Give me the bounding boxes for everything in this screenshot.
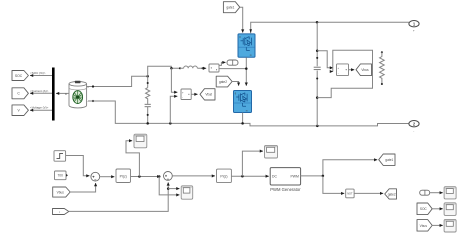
wire mosfet1 source to mid node (245, 57, 247, 85)
node Vbus minus tap (316, 96, 319, 99)
node battery plus junction (146, 75, 149, 78)
svg-text:<SOC (%)>: <SOC (%)> (30, 71, 46, 75)
node Vbus plus tap (316, 49, 319, 52)
wire Vbat output (191, 93, 197, 95)
bus selector bar (52, 68, 55, 121)
node PI1 output junction (138, 175, 141, 178)
node rail mosfet2 junction (241, 122, 244, 125)
constant block 700 (55, 171, 69, 180)
svg-text:PI(z): PI(z) (120, 175, 127, 179)
wire NOT to gate2 goto (354, 192, 383, 194)
wire bus to SOC with label <SOC (%)> (30, 71, 52, 76)
scope6 (444, 219, 456, 232)
wire Vbus plus routing (317, 51, 333, 68)
svg-text:<Current (A)>: <Current (A)> (30, 89, 49, 93)
current measurement block (209, 64, 219, 72)
svg-text:700: 700 (58, 174, 64, 178)
node PWM output junction (322, 175, 325, 178)
node battery plus port (92, 85, 94, 87)
goto tag gate1 (379, 154, 395, 165)
wire i feedback to sum2 (69, 182, 168, 211)
wire SOC to scope2 (432, 208, 443, 210)
goto tag V (12, 105, 28, 116)
voltage measurement Vbus block (337, 64, 349, 76)
from tag Vbus (monitors) (417, 220, 432, 232)
goto tag SOC (12, 71, 28, 81)
svg-text:Vbat: Vbat (205, 93, 212, 97)
wire Vbat plus riser (171, 68, 177, 92)
wire gate2 to mosfet2 gate (232, 82, 239, 86)
goto tag Vbus (356, 64, 372, 76)
goto tag Vbat (200, 89, 215, 100)
goto tag I (capsule) (227, 60, 238, 65)
svg-text:Vbus: Vbus (57, 190, 65, 194)
wire PI1 to sum2 (131, 176, 161, 178)
NOT block (346, 189, 354, 198)
node iref tap junction (158, 175, 161, 178)
goto tag gate2 (385, 189, 397, 199)
svg-text:m: m (246, 109, 248, 112)
load resistor (unconnected) (380, 51, 385, 85)
wire PI1 tap to scope5 (126, 141, 139, 177)
from tag I (capsule, monitors) (420, 190, 430, 195)
wire sum2 to PI2 (172, 175, 215, 177)
svg-text:-: - (413, 129, 414, 133)
wire PWM to gate1 goto (301, 160, 378, 176)
wire top rail to inductor (148, 66, 180, 76)
scope3 (265, 145, 278, 158)
from tag gate1 (top) (223, 2, 239, 13)
svg-text:PWM Generator: PWM Generator (270, 187, 301, 192)
wire Vbus to sum1 (70, 183, 95, 192)
node duty tap junction (241, 175, 244, 178)
wire current sensor signal to goto I (219, 62, 226, 65)
svg-text:+: + (413, 29, 415, 33)
node mid converter junction (245, 67, 248, 70)
wire PWM to NOT (323, 176, 344, 194)
wire I to scope1 (430, 192, 443, 194)
svg-text:Vbus: Vbus (361, 68, 369, 72)
svg-text:Vbus: Vbus (420, 224, 428, 228)
node battery minus port (92, 100, 94, 102)
svg-text:gate1: gate1 (226, 6, 234, 10)
node Vbat plus tap (170, 67, 173, 70)
wire bus to C with label <Current (A)> (30, 89, 52, 94)
scope2 (444, 203, 456, 216)
goto tag C (12, 88, 28, 99)
svg-text:gate1: gate1 (385, 158, 393, 162)
svg-text:PI(z): PI(z) (220, 175, 227, 179)
inductor (179, 66, 204, 69)
scope1 (444, 187, 456, 199)
wire feedback tap to scope4 in1 (168, 188, 179, 190)
PI controller PI2 (217, 169, 232, 183)
svg-text:m: m (250, 54, 252, 57)
wire inductor to current sensor (203, 67, 207, 69)
step block (54, 151, 66, 162)
voltage measurement Vbat block (181, 89, 191, 100)
svg-text:SOC: SOC (15, 74, 23, 78)
node rail RC junction (146, 122, 149, 125)
scope4 (181, 186, 193, 199)
output port 2 (409, 121, 419, 133)
svg-text:m: m (65, 93, 67, 96)
wire bus to V with label <Voltage (V)> (30, 106, 52, 111)
wire sum1 to PI1 (100, 176, 115, 178)
svg-text:-: - (182, 96, 183, 99)
sum block sum1 (91, 172, 100, 181)
PI controller PI1 (116, 169, 131, 183)
from tag SOC (monitors) (417, 203, 432, 215)
svg-text:<Voltage (V)>: <Voltage (V)> (30, 106, 49, 110)
wire top rail (drain to output port 1) (251, 22, 409, 33)
PWM generator block (270, 168, 301, 192)
mosfet Q2 (lower) (234, 91, 252, 113)
wire current sensor to mosfet node (219, 68, 246, 70)
wire iref tap to scope4 in2 (159, 177, 179, 195)
wire PI2 to PWM generator (231, 175, 268, 177)
from tag Vbus (control) (53, 187, 70, 197)
svg-text:NOT: NOT (347, 193, 353, 196)
svg-text:PWM: PWM (291, 175, 299, 179)
wire step to sum1 (66, 156, 90, 176)
wire gate1 to mosfet1 gate (240, 7, 243, 32)
wire Vbus minus routing (317, 50, 372, 97)
wire battery + to top node (86, 76, 148, 86)
sum block sum2 (164, 172, 173, 181)
wire Vbus output (349, 69, 355, 71)
output port 1 (409, 21, 419, 33)
mosfet Q1 (upper) (238, 34, 255, 57)
scope5 (134, 134, 147, 148)
DC bus capacitor branch (314, 22, 321, 126)
svg-text:-: - (338, 72, 339, 75)
wire bottom rail (88, 101, 409, 126)
svg-text:gate2: gate2 (219, 80, 227, 84)
svg-text:gate2: gate2 (388, 192, 396, 196)
wire Vbat minus riser (170, 96, 177, 123)
wire battery m to bus selector (56, 92, 69, 94)
from tag gate2 (mid) (216, 76, 232, 87)
node feedback scope tap (167, 187, 170, 190)
svg-text:DC: DC (272, 175, 277, 179)
from tag i (feedback) (53, 209, 69, 215)
RC snubber branch (resistor + capacitor) (145, 76, 151, 123)
battery block (65, 81, 89, 108)
wire duty tap to scope3 (242, 151, 263, 176)
wire mosfet2 source to bottom rail (242, 113, 244, 124)
svg-text:SOC: SOC (420, 207, 428, 211)
node rail Vbat minus junction (169, 122, 172, 125)
node rail capacitor junction (316, 125, 319, 128)
wire Vbus to scope6 (432, 224, 443, 226)
node top rail capacitor junction (316, 21, 319, 24)
